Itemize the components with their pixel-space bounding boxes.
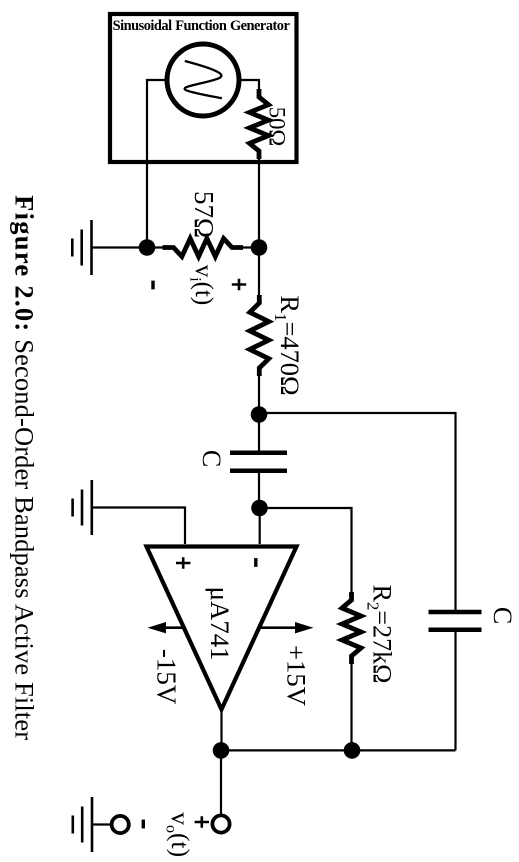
- svg-text:vo(t): vo(t): [162, 812, 195, 857]
- svg-text:μA741: μA741: [205, 587, 235, 661]
- svg-text:Figure 2.0: Second-Order Bandp: Figure 2.0: Second-Order Bandpass Active…: [10, 195, 40, 740]
- svg-text:+15V: +15V: [282, 645, 312, 706]
- svg-text:-15V: -15V: [152, 649, 182, 705]
- svg-text:R1=470Ω: R1=470Ω: [271, 295, 305, 395]
- svg-text:C: C: [197, 450, 226, 467]
- svg-text:C: C: [488, 607, 517, 624]
- svg-text:vi(t): vi(t): [186, 265, 217, 306]
- svg-text:50Ω: 50Ω: [265, 107, 290, 147]
- svg-text:Sinusoidal Function Generator: Sinusoidal Function Generator: [113, 18, 291, 34]
- svg-text:57Ω: 57Ω: [189, 191, 219, 238]
- svg-text:R2=27kΩ: R2=27kΩ: [364, 585, 397, 684]
